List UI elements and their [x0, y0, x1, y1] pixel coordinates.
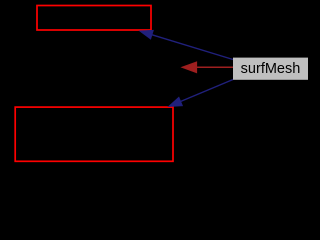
svg-text:surfMesh: surfMesh	[241, 61, 301, 77]
node: bottom base-class box (red outline)	[15, 107, 173, 161]
node: surfMesh (grey filled)	[233, 58, 308, 80]
wire: inheritance edge surfMesh -> top box	[152, 35, 233, 60]
wire: usage edge surfMesh -> left (dark red)	[197, 66, 233, 68]
wire: inheritance edge surfMesh -> bottom box	[181, 80, 233, 102]
node: top base-class box (red outline)	[37, 6, 151, 31]
